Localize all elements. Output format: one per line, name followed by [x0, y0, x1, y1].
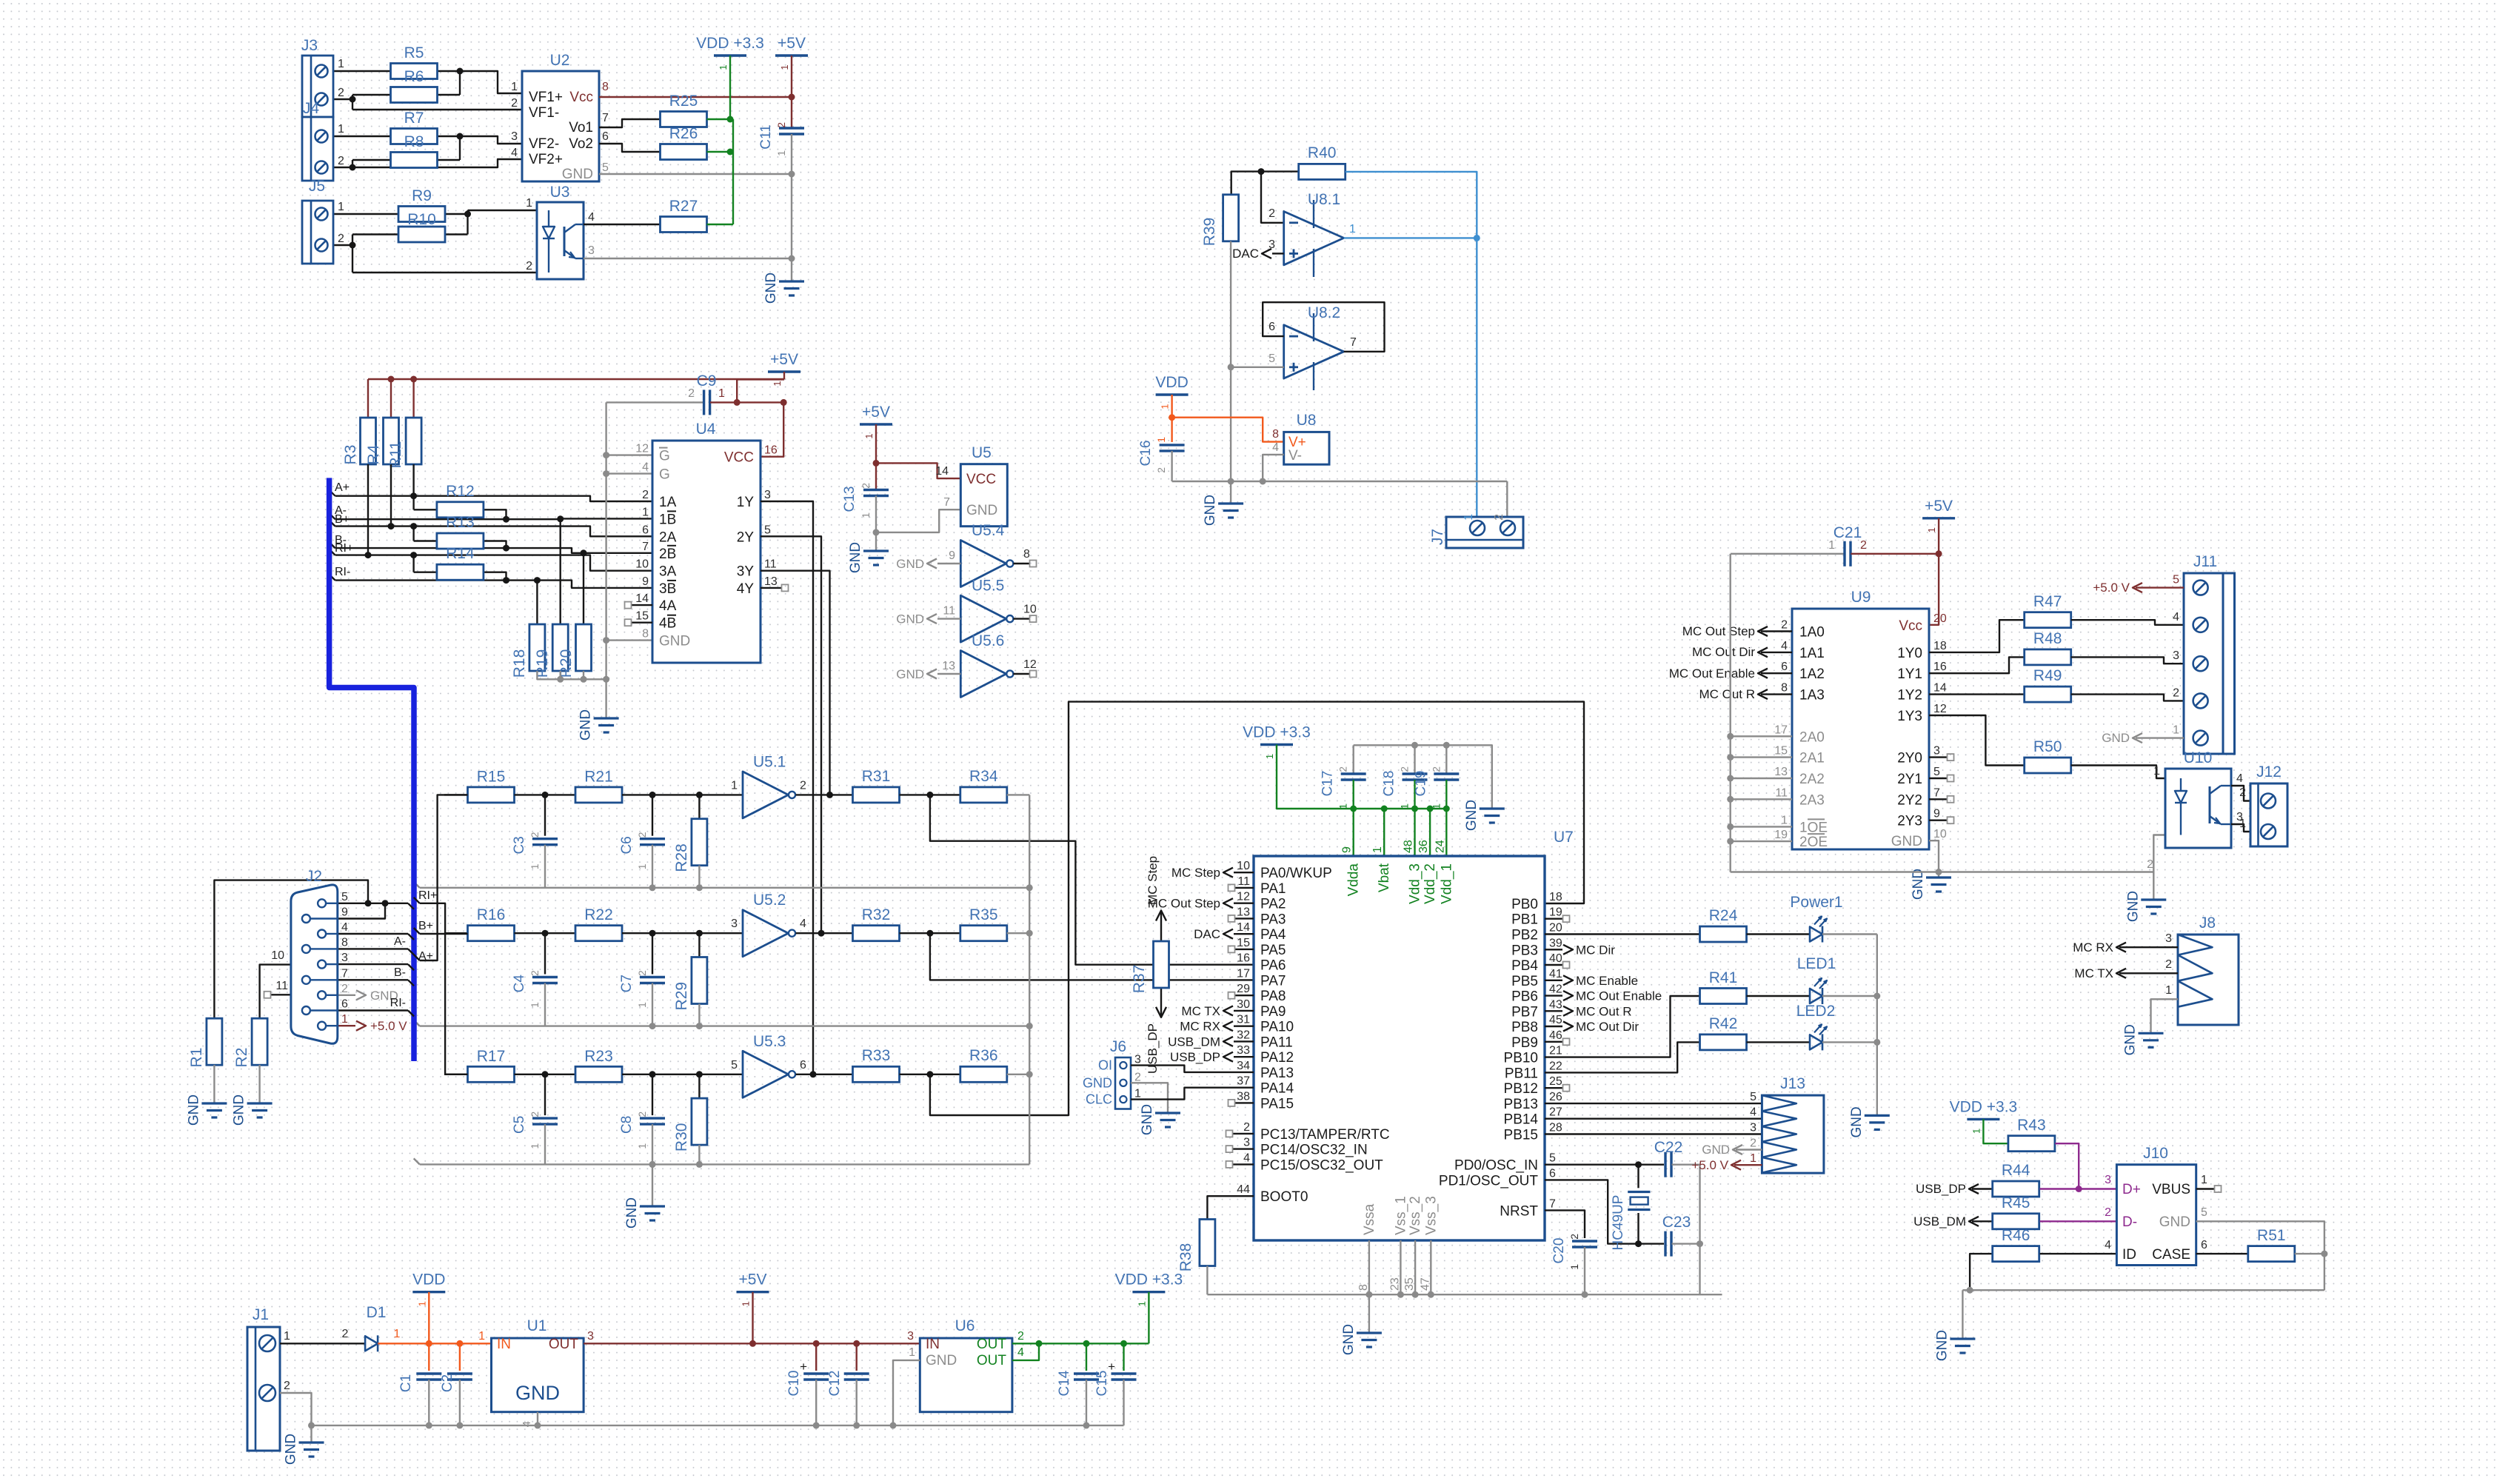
- svg-text:NRST: NRST: [1500, 1203, 1538, 1219]
- svg-text:11: 11: [764, 558, 777, 571]
- svg-text:6: 6: [2201, 1239, 2207, 1251]
- svg-text:BOOT0: BOOT0: [1260, 1189, 1308, 1205]
- svg-text:J7: J7: [1429, 529, 1446, 545]
- svg-text:5: 5: [731, 1059, 738, 1072]
- svg-text:5: 5: [1549, 1152, 1556, 1165]
- net flag MC Enable at PB5: [1545, 980, 1562, 981]
- svg-text:3: 3: [2165, 932, 2172, 945]
- svg-text:5: 5: [1268, 352, 1275, 365]
- junction: [1582, 1291, 1588, 1298]
- svg-text:4: 4: [2236, 772, 2243, 785]
- wire R34 right gray: [1007, 794, 1029, 795]
- svg-text:47: 47: [1419, 1277, 1431, 1291]
- svg-text:PA13: PA13: [1260, 1066, 1294, 1081]
- wire LED2 cathode gray: [1822, 1041, 1877, 1043]
- svg-text:C20: C20: [1551, 1238, 1567, 1264]
- wire RI+ exit to R17: [420, 903, 468, 1074]
- svg-text:U8: U8: [1297, 412, 1317, 429]
- svg-text:3: 3: [1243, 1137, 1250, 1149]
- resistor R29: [698, 933, 700, 957]
- svg-text:26: 26: [1549, 1091, 1562, 1103]
- svg-text:4: 4: [1750, 1106, 1756, 1119]
- junction: [1727, 796, 1734, 803]
- resistor R7: [391, 129, 438, 144]
- svg-text:38: 38: [1237, 1090, 1250, 1103]
- svg-text:3: 3: [1134, 1054, 1141, 1066]
- wire input to R16: [444, 932, 468, 934]
- wire Vcc dark red: [1929, 554, 1939, 625]
- wire R49 to J11.2: [2071, 695, 2184, 701]
- svg-text:C4: C4: [512, 975, 527, 993]
- junction: [649, 792, 656, 798]
- wire U9 2A/OE gray bus: [1729, 554, 1731, 872]
- svg-text:MC Out Enable: MC Out Enable: [1576, 989, 1662, 1003]
- svg-text:16: 16: [1933, 661, 1947, 673]
- svg-text:R2: R2: [233, 1048, 250, 1068]
- svg-text:PA14: PA14: [1260, 1081, 1294, 1097]
- svg-text:23: 23: [1388, 1277, 1401, 1291]
- svg-text:U5.4: U5.4: [972, 522, 1005, 539]
- svg-text:7: 7: [1933, 786, 1940, 799]
- junction: [557, 676, 564, 683]
- bus entry A-: [330, 513, 335, 519]
- bus entry gray: [414, 1158, 420, 1164]
- power +5V above U5: [860, 423, 892, 425]
- wire U2 Vo1 to R25: [599, 119, 661, 127]
- junction: [890, 1422, 897, 1428]
- resistor R10: [398, 227, 445, 242]
- pin stub PC pin: [1233, 1148, 1254, 1149]
- power VDD +3.3 right: [1132, 1291, 1165, 1293]
- junction: [826, 792, 833, 798]
- svg-text:9: 9: [1933, 808, 1940, 820]
- wire gray +5.0V column: [1699, 1165, 1700, 1295]
- ground below row3 bus: [652, 1164, 653, 1206]
- wire A- row to U4 1B: [335, 518, 652, 520]
- svg-text:R22: R22: [584, 906, 613, 923]
- resistor R20: [576, 624, 592, 671]
- svg-text:1: 1: [642, 506, 649, 518]
- resistor R31: [853, 787, 900, 803]
- svg-text:GND: GND: [896, 557, 924, 571]
- svg-text:GND: GND: [1911, 869, 1926, 900]
- svg-text:1: 1: [909, 1346, 915, 1359]
- ground: [1962, 1289, 1970, 1291]
- svg-text:10: 10: [1023, 604, 1037, 616]
- svg-text:MC Out Step: MC Out Step: [1682, 624, 1755, 638]
- capacitor C8: [652, 1074, 653, 1115]
- svg-text:DAC: DAC: [1232, 247, 1259, 261]
- pin stub PA5: [1235, 949, 1254, 950]
- wire U2 GND gray: [599, 173, 792, 175]
- svg-text:VDD: VDD: [1155, 374, 1188, 391]
- svg-text:MC Step: MC Step: [1146, 856, 1160, 905]
- svg-text:R50: R50: [2033, 738, 2062, 755]
- svg-text:OI: OI: [1098, 1058, 1112, 1073]
- svg-text:R6: R6: [404, 68, 424, 85]
- net flag USB_DP at PA12: [1234, 1056, 1254, 1057]
- svg-text:R24: R24: [1709, 907, 1738, 924]
- svg-text:31: 31: [1237, 1014, 1250, 1026]
- svg-text:1: 1: [338, 123, 344, 136]
- wire R21 to inverter U5.1: [622, 794, 743, 795]
- svg-text:USB_DP: USB_DP: [1170, 1050, 1220, 1064]
- junction: [696, 1071, 703, 1077]
- wire LED1 cathode gray: [1822, 995, 1877, 997]
- junction: [1967, 1287, 1973, 1294]
- wire PB14 to J13.4: [1545, 1117, 1762, 1119]
- svg-text:1: 1: [1371, 846, 1384, 853]
- bus entry A+: [408, 964, 414, 970]
- svg-text:R14: R14: [446, 545, 475, 562]
- resistor R24: [1700, 926, 1747, 942]
- wire J4.1 to R7/R8: [333, 136, 391, 137]
- wire R25 to VDD rail green: [707, 118, 731, 120]
- wire GND flag into U5.6: [937, 673, 960, 675]
- svg-text:12: 12: [1933, 703, 1947, 715]
- inverter U5.2: [743, 910, 789, 957]
- svg-text:PB13: PB13: [1504, 1097, 1538, 1112]
- wire U4 enable bus gray: [605, 402, 606, 718]
- svg-text:C17: C17: [1320, 771, 1336, 797]
- svg-text:MC Out Enable: MC Out Enable: [1669, 666, 1755, 681]
- wire R4 to B+ row: [390, 464, 392, 527]
- wire VDD +3.3 down green: [1148, 1292, 1149, 1344]
- svg-text:J6: J6: [1110, 1038, 1126, 1055]
- svg-text:J11: J11: [2193, 553, 2217, 570]
- svg-text:7: 7: [1549, 1197, 1556, 1210]
- wire U9 bottom gray bus to U10: [1731, 835, 2165, 872]
- bus entry B+: [408, 934, 414, 940]
- wire +5V down dark red: [752, 1292, 753, 1344]
- resistor R30: [698, 1074, 700, 1098]
- opamp U8.2: [1284, 325, 1344, 378]
- svg-text:GND: GND: [1702, 1143, 1730, 1157]
- resistor R40: [1299, 164, 1346, 179]
- svg-text:2: 2: [284, 1380, 290, 1392]
- capacitor C14: [1086, 1343, 1087, 1371]
- svg-text:4Y: 4Y: [737, 581, 755, 597]
- svg-text:MC TX: MC TX: [2074, 966, 2113, 980]
- svg-text:11: 11: [943, 605, 955, 618]
- svg-text:R44: R44: [2002, 1162, 2030, 1179]
- junction: [410, 492, 417, 499]
- resistor R38: [1200, 1220, 1215, 1266]
- svg-text:1: 1: [1463, 514, 1475, 521]
- wire U9 GND gray: [1929, 840, 1939, 872]
- svg-text:27: 27: [1549, 1106, 1562, 1119]
- svg-text:2A2: 2A2: [1799, 772, 1825, 787]
- svg-text:MC RX: MC RX: [2073, 940, 2113, 955]
- svg-text:PA2: PA2: [1260, 897, 1286, 912]
- capacitor C22: [1664, 1152, 1666, 1177]
- svg-text:12: 12: [1023, 658, 1037, 671]
- net flag GND at J11.1: [2136, 737, 2184, 738]
- net flag MC TX at J8.2: [2119, 972, 2178, 974]
- svg-text:4: 4: [511, 147, 518, 159]
- svg-text:PB0: PB0: [1511, 897, 1538, 912]
- wire J2 pin1 +5.0V flag: [338, 1025, 355, 1026]
- svg-text:30: 30: [1237, 998, 1250, 1011]
- net flag DAC into U8.1 plus: [1272, 253, 1284, 254]
- resistor R41: [1700, 989, 1747, 1004]
- pin stub PA15: [1235, 1102, 1254, 1103]
- svg-text:3: 3: [764, 489, 771, 501]
- svg-text:4A: 4A: [659, 598, 677, 614]
- junction: [1873, 1039, 1880, 1046]
- junction: [350, 164, 356, 171]
- wire gray termination bus vertical: [1029, 795, 1030, 1164]
- capacitor C6: [652, 795, 653, 835]
- junction: [1258, 168, 1265, 175]
- net flag MC Step at PA0: [1234, 872, 1254, 873]
- junction: [1411, 742, 1418, 749]
- svg-text:PA4: PA4: [1260, 927, 1286, 943]
- wire gray stub: [1731, 778, 1792, 779]
- svg-text:17: 17: [1774, 723, 1788, 736]
- svg-text:PA12: PA12: [1260, 1050, 1294, 1066]
- wire U6 OUT2 green: [1012, 1343, 1039, 1360]
- svg-text:USB_DP: USB_DP: [1916, 1182, 1966, 1196]
- wire VDD green to decoupling bus: [1277, 745, 1446, 809]
- capacitor C5: [544, 1074, 546, 1115]
- ground: [1865, 1114, 1890, 1117]
- junction: [1026, 1071, 1033, 1077]
- svg-text:+5.0 V: +5.0 V: [2093, 581, 2130, 595]
- svg-text:4: 4: [642, 461, 649, 474]
- svg-text:4: 4: [341, 921, 348, 934]
- svg-text:1Y1: 1Y1: [1897, 666, 1922, 682]
- ground: [201, 1102, 227, 1104]
- wire R41 to LED1: [1747, 995, 1811, 997]
- wire R23 to inverter U5.3: [622, 1074, 743, 1075]
- wire U1 GND pin to bus: [537, 1412, 538, 1425]
- svg-text:R21: R21: [584, 768, 613, 785]
- wire R47 to J11.4: [2071, 620, 2184, 625]
- capacitor C18: [1414, 745, 1415, 774]
- svg-text:3: 3: [341, 952, 348, 964]
- svg-text:VDD +3.3: VDD +3.3: [1950, 1098, 2018, 1115]
- svg-text:PA8: PA8: [1260, 989, 1286, 1004]
- svg-text:GND: GND: [848, 542, 863, 573]
- svg-text:B+: B+: [418, 920, 433, 932]
- svg-text:Vss_1: Vss_1: [1393, 1196, 1408, 1235]
- svg-text:15: 15: [1237, 937, 1250, 949]
- svg-text:13: 13: [1237, 906, 1250, 918]
- pin stub U9 2Y0: [1929, 756, 1947, 758]
- power VDD for U8: [1156, 393, 1189, 395]
- svg-text:2: 2: [511, 97, 518, 110]
- svg-text:GND: GND: [232, 1094, 247, 1126]
- net flag USB_DM at PA11: [1234, 1040, 1254, 1042]
- svg-text:2: 2: [526, 260, 532, 273]
- svg-text:2: 2: [338, 155, 344, 167]
- resistor R48: [2025, 649, 2071, 665]
- svg-text:U8.2: U8.2: [1308, 304, 1340, 321]
- wire Vss stub gray: [1414, 1240, 1416, 1294]
- pin stub PB4: [1545, 964, 1562, 966]
- svg-text:5: 5: [1933, 766, 1940, 778]
- svg-text:R37: R37: [1131, 965, 1148, 994]
- ground: [1480, 807, 1505, 809]
- svg-text:2: 2: [800, 779, 806, 792]
- svg-text:VF1+: VF1+: [529, 90, 563, 105]
- junction: [308, 1422, 315, 1428]
- net flag MC RX at PA10: [1234, 1025, 1254, 1026]
- svg-text:PB6: PB6: [1511, 989, 1538, 1005]
- resistor R37 vertical with arrows: [1160, 911, 1162, 942]
- wire R12 taps: [412, 496, 414, 510]
- junction: [696, 884, 703, 891]
- resistor R46: [1993, 1246, 2039, 1262]
- junction: [1635, 1240, 1642, 1247]
- bus entry RI-: [330, 575, 335, 581]
- svg-text:1: 1: [529, 1143, 541, 1149]
- wire C13 to GND gray: [875, 496, 877, 552]
- wire U2 Vo2 to R26: [599, 144, 661, 152]
- svg-text:B+: B+: [335, 513, 350, 526]
- svg-text:R17: R17: [477, 1048, 506, 1065]
- ic U6 regulator: [920, 1338, 1012, 1412]
- wire VDD orange: [1171, 395, 1172, 442]
- wire gray return bus: [420, 887, 1029, 889]
- svg-text:41: 41: [1549, 968, 1562, 980]
- junction: [727, 116, 734, 123]
- connector J13: [1762, 1095, 1824, 1173]
- svg-text:8: 8: [642, 628, 649, 641]
- svg-text:Vbat: Vbat: [1377, 863, 1392, 892]
- capacitor C2: [459, 1343, 461, 1371]
- svg-text:13: 13: [942, 660, 955, 672]
- wire 1Y1 to R48: [1929, 657, 2025, 673]
- svg-text:USB_DM: USB_DM: [1913, 1214, 1966, 1229]
- svg-text:RI+: RI+: [418, 889, 437, 902]
- junction: [813, 1340, 820, 1347]
- svg-text:1Y0: 1Y0: [1897, 646, 1922, 661]
- wire J6.3 to PA13: [1131, 1066, 1254, 1072]
- svg-text:4: 4: [1243, 1152, 1250, 1164]
- svg-text:1: 1: [529, 1002, 541, 1008]
- svg-text:Vcc: Vcc: [569, 90, 593, 105]
- wire D1 to VDD junction orange: [378, 1343, 429, 1344]
- junction: [1228, 478, 1234, 485]
- svg-text:R18: R18: [511, 649, 528, 678]
- svg-text:A-: A-: [394, 935, 406, 948]
- svg-text:11: 11: [1775, 786, 1788, 799]
- resistor R35: [960, 926, 1007, 941]
- svg-text:2: 2: [2173, 686, 2179, 699]
- svg-text:GND: GND: [1083, 1075, 1112, 1090]
- svg-text:V-: V-: [1288, 448, 1302, 464]
- wire R39 bottom gray: [1230, 241, 1231, 481]
- wire R50 to U10.1: [2071, 766, 2165, 779]
- junction: [1727, 838, 1734, 845]
- wire R20 top: [583, 553, 584, 624]
- wire U8 area GND bus gray: [1172, 481, 1508, 482]
- resistor R25: [661, 112, 707, 127]
- junction: [1727, 754, 1734, 761]
- svg-text:1Y3: 1Y3: [1897, 709, 1922, 724]
- svg-text:U8.1: U8.1: [1308, 191, 1340, 208]
- svg-text:DAC: DAC: [1194, 927, 1220, 941]
- svg-text:VDD +3.3: VDD +3.3: [1243, 724, 1311, 741]
- junction: [603, 676, 609, 683]
- svg-text:R29: R29: [673, 982, 690, 1011]
- pin stub VBUS: [2196, 1188, 2214, 1189]
- svg-text:16: 16: [1237, 952, 1250, 965]
- wire gray cap tops to GND: [1354, 745, 1492, 809]
- svg-text:8: 8: [1781, 682, 1788, 695]
- junction: [696, 792, 703, 798]
- wire R35 right gray: [1007, 932, 1029, 934]
- svg-text:1: 1: [636, 1002, 648, 1008]
- wire R18 top: [536, 581, 538, 624]
- pin stub U4 4A: [632, 604, 652, 606]
- svg-text:+: +: [800, 1360, 807, 1374]
- inverter U5.5: [960, 595, 1006, 642]
- wire gray stub: [1731, 798, 1792, 800]
- wire RI- row to U4 3B: [335, 581, 652, 588]
- wire bottom ground bus gray: [280, 1393, 1124, 1425]
- wire J5.2 to U3 pin2: [333, 244, 352, 246]
- svg-text:1: 1: [1750, 1152, 1756, 1165]
- svg-text:R27: R27: [669, 198, 698, 215]
- svg-text:2: 2: [342, 1328, 349, 1340]
- svg-text:Vdda: Vdda: [1346, 863, 1362, 897]
- net flag USB_DP at R44: [1972, 1188, 1992, 1189]
- svg-text:R7: R7: [404, 110, 424, 127]
- resistor R32: [853, 926, 900, 941]
- svg-text:16: 16: [764, 444, 778, 457]
- wire +5V rail dark red: [791, 56, 792, 128]
- wire +5V to C21 junction dark red: [1938, 518, 1939, 554]
- svg-text:PA11: PA11: [1260, 1035, 1293, 1050]
- wire +5V to U4 VCC dark red: [737, 379, 783, 456]
- svg-text:43: 43: [1549, 998, 1562, 1011]
- junction: [456, 1422, 463, 1428]
- svg-text:+5V: +5V: [739, 1271, 767, 1289]
- svg-text:VCC: VCC: [966, 472, 996, 487]
- svg-text:5: 5: [1750, 1091, 1756, 1103]
- svg-text:GND: GND: [186, 1094, 201, 1126]
- svg-text:MC TX: MC TX: [1181, 1004, 1220, 1018]
- svg-text:2: 2: [1568, 1234, 1580, 1240]
- svg-text:R16: R16: [477, 906, 506, 923]
- svg-text:CASE: CASE: [2152, 1247, 2190, 1263]
- svg-text:2OE: 2OE: [1799, 835, 1828, 850]
- svg-text:Vo1: Vo1: [569, 120, 593, 136]
- svg-text:3: 3: [1750, 1122, 1756, 1134]
- svg-text:J1: J1: [253, 1306, 269, 1323]
- ic U9: [1792, 609, 1929, 849]
- junction: [350, 242, 356, 249]
- resistor R13: [437, 533, 484, 549]
- wire +5V top rail dark red: [368, 378, 784, 380]
- svg-text:D+: D+: [2122, 1182, 2141, 1197]
- svg-text:U2: U2: [550, 52, 570, 69]
- svg-text:5: 5: [2173, 574, 2179, 586]
- svg-text:29: 29: [1237, 983, 1250, 995]
- svg-text:32: 32: [1237, 1029, 1250, 1041]
- svg-text:GND: GND: [1464, 800, 1480, 831]
- led Power1: [1810, 927, 1822, 942]
- resistor R19: [552, 624, 568, 671]
- svg-text:C5: C5: [512, 1116, 527, 1134]
- wire CASE to R51: [2196, 1253, 2248, 1254]
- bus entry gray: [414, 882, 420, 888]
- svg-text:VDD +3.3: VDD +3.3: [1115, 1271, 1183, 1289]
- junction: [1228, 364, 1234, 370]
